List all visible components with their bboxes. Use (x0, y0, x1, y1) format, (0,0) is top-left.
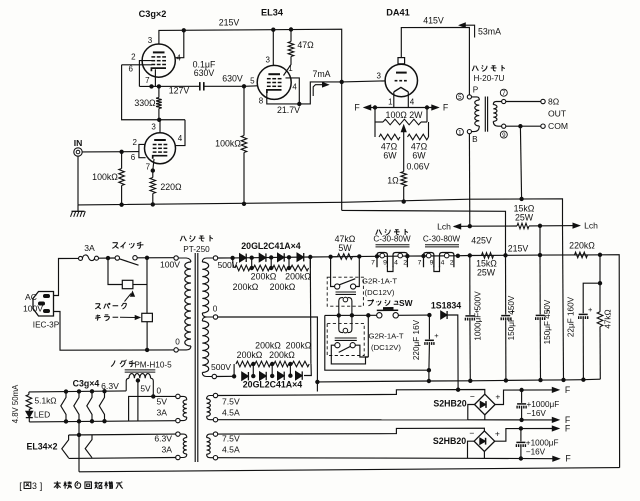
wire pushsw drop (367, 315, 369, 357)
core PM (125, 369, 156, 371)
capacitor 1000uF 500V (469, 256, 471, 315)
svg-text:G2R-1A-T: G2R-1A-T (362, 276, 397, 285)
svg-text:5W: 5W (338, 243, 352, 253)
wire AC2a stub (484, 415, 486, 420)
terminal 7.5Vb bot (213, 456, 217, 460)
arrow F right (432, 105, 439, 110)
svg-text:4.8V 50mA: 4.8V 50mA (11, 384, 20, 423)
node 22uF tap (598, 282, 601, 285)
svg-text:100kΩ: 100kΩ (215, 139, 241, 149)
node lower plate junction (158, 118, 161, 121)
heater C3g 1 (61, 392, 66, 422)
relay K1 core (336, 291, 357, 293)
svg-text:200kΩ: 200kΩ (251, 271, 277, 281)
wire V1b pin2 box (139, 144, 146, 157)
core choke1 (376, 244, 410, 246)
wire V1 pin6 drop (122, 65, 185, 120)
arrow F1 (552, 388, 559, 393)
node gnd 1ohm (402, 200, 405, 203)
node bus 1000uF (469, 379, 472, 382)
svg-text:220Ω: 220Ω (160, 182, 182, 192)
svg-text:(DC12V): (DC12V) (365, 288, 395, 297)
node d1 (250, 256, 253, 259)
node gnd 100k2 (242, 202, 245, 205)
wire AC2b vertex (468, 441, 475, 458)
wire DC+2 (495, 429, 555, 442)
node 220k out (598, 253, 601, 256)
wire pushsw line2 (398, 314, 429, 316)
node 425V rail (468, 254, 471, 257)
wire input to grid (82, 151, 139, 153)
terminal 8ohm (541, 99, 545, 103)
wire F line DA41 (367, 107, 436, 109)
node bus bleed (562, 378, 565, 381)
coil 7.5V b (207, 434, 214, 438)
diode LD3 (278, 372, 285, 380)
svg-text:9: 9 (502, 132, 506, 139)
svg-text:4.5A: 4.5A (222, 445, 240, 455)
node gnd COM (520, 197, 523, 200)
resistor 220k (575, 252, 588, 258)
arrow F4 (553, 456, 560, 461)
wire AC2a (218, 419, 468, 421)
svg-text:200kΩ: 200kΩ (255, 341, 281, 351)
svg-text:2: 2 (131, 52, 136, 61)
fuse 3A (79, 256, 83, 260)
resistor 47ohm 6W left (374, 122, 376, 137)
wire 7mA line (299, 82, 341, 104)
wire fuse-sw (99, 257, 116, 259)
node 215V rail (504, 254, 507, 257)
wire EL34 pin3 (272, 30, 274, 66)
svg-text:3: 3 (151, 122, 156, 131)
coil OPT secondary (493, 102, 501, 105)
wire relay1 bypass right (356, 256, 360, 286)
terminal sec bot (502, 124, 506, 128)
svg-text:1000μF 500V: 1000μF 500V (473, 291, 482, 341)
switch mains (115, 256, 119, 260)
svg-text:100kΩ: 100kΩ (92, 172, 118, 182)
capacitor 150uF 450V a (505, 255, 507, 314)
svg-text:4: 4 (292, 82, 297, 91)
resistor 5.1k (26, 395, 32, 410)
wire V1 pin7 (154, 69, 156, 86)
wire Lch left line (454, 225, 470, 227)
arrow Lch right (563, 225, 577, 227)
wire jack ground (77, 156, 79, 205)
svg-text:1: 1 (388, 98, 393, 107)
node bus 150b (539, 378, 542, 381)
svg-text:PM-H10-5: PM-H10-5 (134, 361, 172, 370)
svg-text:F: F (565, 454, 571, 464)
resistor 330ohm (156, 98, 162, 109)
arrow 53mA hook (463, 25, 475, 37)
wire K2 right (355, 345, 368, 357)
svg-text:F: F (443, 103, 449, 113)
terminal 6.3V bot (176, 455, 180, 459)
wire EL34 top (69, 433, 176, 436)
plug AC IEC-3P (33, 292, 54, 317)
capacitor 0.1uF coupling (199, 82, 201, 90)
svg-text:F: F (354, 103, 360, 113)
svg-text:7mA: 7mA (312, 69, 330, 79)
svg-text:22μF 160V: 22μF 160V (567, 296, 576, 337)
svg-text:630V: 630V (194, 68, 215, 78)
coil 6.3V 3A (180, 434, 187, 438)
bridge rectifier S2HB20 #2 (474, 431, 495, 452)
node ld2 (271, 374, 274, 377)
svg-text:IEC-3P: IEC-3P (33, 321, 60, 330)
label hashimoto OPT (472, 66, 478, 71)
resistor 100ohm 2W hum (374, 108, 376, 123)
node Lch 425V junction (468, 225, 471, 228)
terminal B (467, 130, 471, 134)
terminal P (467, 95, 471, 99)
node C3g plate junction (182, 29, 185, 32)
node cap1 top (520, 388, 523, 391)
terminal COM (541, 124, 545, 128)
svg-text:0: 0 (175, 338, 180, 347)
svg-text:G2R-1A-T: G2R-1A-T (368, 331, 403, 340)
label push SW (368, 300, 374, 306)
node gnd 100k (120, 203, 123, 206)
svg-text:IN: IN (74, 138, 83, 148)
wire COM (506, 125, 541, 127)
capacitor 1000uF 16V #1 (521, 390, 523, 403)
wire DA41 grid (342, 81, 386, 82)
node 220uF top (428, 313, 431, 316)
svg-text:7: 7 (371, 260, 375, 267)
svg-text:3: 3 (32, 481, 37, 491)
diode 1S1834 (441, 311, 447, 319)
svg-text:415V: 415V (423, 16, 444, 26)
svg-text:+: + (588, 305, 593, 314)
svg-text:2: 2 (403, 260, 407, 267)
node cap2 bot (519, 457, 522, 460)
heater C3g 3 (87, 391, 92, 421)
node 1S1834 tie (456, 388, 459, 391)
spark killer net (108, 258, 122, 284)
node cap2 top (519, 427, 522, 430)
svg-text:DA41: DA41 (386, 8, 410, 18)
node COM junction (519, 125, 522, 128)
jack IN (74, 148, 82, 156)
terminal 500V bot (212, 374, 216, 378)
wire heater return bus (29, 421, 176, 422)
svg-text:4.5A: 4.5A (222, 408, 240, 418)
svg-text:3: 3 (376, 72, 381, 81)
terminal 6.3V top (176, 432, 180, 436)
relay K1 contact (335, 284, 340, 289)
svg-text:7: 7 (146, 163, 151, 172)
svg-text:3A: 3A (161, 445, 172, 455)
wire lower string out (304, 364, 311, 376)
node k1 coil a (337, 314, 340, 317)
svg-text:COM: COM (548, 121, 568, 131)
core choke2 (425, 244, 459, 246)
wire relay frame (325, 315, 429, 370)
wire C3g pin4 to rail (176, 30, 184, 57)
node 330ohm top (157, 85, 160, 88)
node 100k input junction (120, 150, 123, 153)
wire 8ohm (506, 101, 541, 103)
wire hum wiper (403, 128, 405, 137)
node bus 220uF (427, 379, 430, 382)
terminal 100V (174, 256, 178, 260)
node ld3 (289, 374, 292, 377)
resistor 100k input (121, 152, 123, 169)
relay K1 coil (339, 298, 343, 316)
wire B plus drop (468, 134, 470, 226)
wire F4 line (468, 457, 556, 459)
svg-text:0.06V: 0.06V (407, 162, 430, 172)
core OPT (484, 97, 486, 132)
wire V1b pin3 (159, 120, 161, 133)
wire B+ rail (218, 255, 620, 468)
coil PM (126, 378, 129, 391)
arrow spark1 (125, 294, 132, 302)
node d4 (309, 255, 312, 258)
node 630V (242, 85, 245, 88)
svg-text:5: 5 (250, 76, 255, 85)
heater EL34 1 (62, 435, 69, 458)
wire bleeder ground (563, 226, 564, 380)
wire AC1a (218, 390, 485, 396)
svg-text:F: F (565, 424, 571, 434)
resistor 47k 5W (331, 256, 338, 258)
wire bus stub (316, 382, 318, 392)
arrow F3 (552, 426, 559, 431)
svg-text:1S1834: 1S1834 (431, 300, 461, 310)
svg-text:SW: SW (399, 298, 413, 308)
svg-text:+: + (495, 392, 500, 402)
circnum 9 (500, 131, 507, 138)
coil 5V 3A (180, 396, 187, 400)
svg-text:−: − (470, 391, 475, 401)
node EL34 plate rail (272, 28, 275, 31)
svg-text:4: 4 (178, 134, 183, 143)
node spark bottom (145, 348, 148, 351)
svg-text:425V: 425V (471, 236, 492, 246)
wire cathode down (403, 137, 405, 172)
terminal sec top (502, 99, 506, 103)
wire sw-xfmr (137, 257, 174, 259)
choke L1 (377, 253, 387, 268)
diode LD1 (242, 372, 249, 380)
svg-text:47Ω: 47Ω (297, 40, 314, 50)
wire V3 filament legs (393, 92, 395, 108)
label switch kana (112, 243, 118, 249)
svg-text:150μF 450V: 150μF 450V (507, 295, 516, 340)
wire V2 screen (286, 78, 300, 104)
wire lower string (216, 375, 234, 377)
node ld0 (232, 375, 235, 378)
svg-text:C3g×2: C3g×2 (139, 9, 167, 19)
svg-text:150μF 450V: 150μF 450V (543, 299, 552, 344)
wire relay1 bypass left (331, 257, 335, 287)
svg-text:500V: 500V (217, 260, 237, 270)
svg-text:8: 8 (259, 97, 264, 106)
svg-text:220kΩ: 220kΩ (569, 241, 595, 251)
svg-text:PT-250: PT-250 (183, 245, 210, 254)
node ld1 (252, 374, 255, 377)
resistor 200k string top (232, 258, 235, 268)
svg-text:]: ] (40, 481, 43, 491)
svg-text:4: 4 (410, 98, 415, 107)
terminal 5V top (176, 394, 180, 398)
node pushsw branch (367, 314, 370, 317)
node gnd 220 (151, 203, 154, 206)
svg-text:5V: 5V (156, 397, 167, 407)
heater EL34 2 (85, 435, 92, 458)
label hashimoto PT (180, 236, 186, 241)
resistor 15k 25W drop (482, 253, 494, 259)
wire pushsw line (325, 314, 377, 316)
arrow F left (364, 105, 371, 110)
relay K2 contact (335, 343, 340, 348)
svg-text:200kΩ: 200kΩ (237, 350, 263, 360)
svg-text:C3g×4: C3g×4 (73, 378, 100, 388)
capacitor 22uF 160V (579, 313, 588, 315)
svg-text:215V: 215V (508, 244, 529, 254)
wire PM tap 5V (137, 380, 139, 422)
terminal 7.5Va top (213, 393, 217, 397)
wire PM 0 line (129, 396, 176, 421)
svg-text:6W: 6W (383, 150, 397, 160)
node F 1 (373, 106, 376, 109)
node bus start (316, 380, 319, 383)
node 220uF bot (427, 369, 430, 372)
node V1b cathode junction (151, 169, 154, 172)
tube V1 C3g upper (142, 44, 175, 77)
svg-text:200kΩ: 200kΩ (270, 282, 296, 292)
svg-text:3A: 3A (84, 243, 95, 253)
relay K1 box (327, 277, 363, 306)
svg-text:2: 2 (450, 260, 454, 267)
svg-text:5: 5 (458, 94, 462, 101)
wire AC2b stub (483, 452, 485, 459)
svg-text:0: 0 (157, 387, 162, 396)
node d2 (270, 256, 273, 259)
svg-text:100Ω 2W: 100Ω 2W (386, 110, 424, 120)
svg-text:20GL2C41A×4: 20GL2C41A×4 (243, 379, 303, 389)
node bus 22uF (582, 378, 585, 381)
wire heater return long (79, 468, 620, 472)
svg-text:−: − (469, 428, 474, 438)
svg-text:3A: 3A (156, 408, 167, 418)
coil OPT primary (472, 97, 480, 100)
svg-text:+: + (495, 428, 500, 438)
wire 215V rail (159, 29, 342, 210)
node bus 150a (504, 379, 507, 382)
arrow Lch left (454, 224, 461, 229)
svg-text:127V: 127V (169, 85, 190, 95)
diode LD4 (296, 371, 303, 379)
svg-text:5.1kΩ: 5.1kΩ (34, 396, 56, 406)
svg-text:(DC12V): (DC12V) (371, 343, 401, 352)
node d3 (287, 256, 290, 259)
relay K2 coil (339, 315, 343, 332)
circnum 5 (456, 93, 463, 100)
heater C3g 4 (99, 391, 104, 421)
node d0 (231, 256, 234, 259)
svg-text:S2HB20: S2HB20 (433, 399, 466, 409)
label killer kana (95, 315, 101, 321)
wire heater return drop (78, 422, 80, 472)
coil 7.5V a (207, 396, 214, 400)
wire mains top (54, 258, 79, 295)
wire V1 grid pin2 (139, 61, 151, 87)
wire lower riser (309, 257, 312, 364)
resistor 47ohm screen (290, 30, 292, 42)
svg-text:8Ω: 8Ω (548, 97, 560, 107)
svg-text:3: 3 (265, 56, 270, 65)
svg-text:−16V: −16V (526, 447, 546, 456)
svg-text:500V: 500V (211, 362, 231, 372)
svg-text:200kΩ: 200kΩ (233, 282, 259, 292)
wire 415V rail (401, 28, 469, 95)
node 47k left (329, 255, 332, 258)
tube V3 DA41 (385, 64, 417, 96)
svg-text:AC: AC (25, 292, 37, 302)
wire 22uF tap (599, 255, 601, 283)
ground symbol (77, 205, 79, 211)
node cap1 bot (520, 418, 523, 421)
LED (26, 411, 33, 417)
node 47k right (358, 255, 361, 258)
resistor 1ohm (401, 172, 407, 187)
svg-text:S2HB20: S2HB20 (433, 436, 466, 446)
wire V1 cathode node 127V (139, 85, 199, 87)
svg-text:+1000μF: +1000μF (527, 400, 560, 409)
wire 6.3V bus (29, 391, 126, 392)
svg-text:Lch: Lch (584, 221, 598, 231)
terminal 0 sec (213, 315, 217, 319)
coil PT secondary (202, 258, 213, 262)
svg-text:7.5V: 7.5V (222, 397, 240, 407)
svg-text:C-30-80W: C-30-80W (373, 235, 411, 244)
diode D3 (278, 253, 285, 261)
bridge rectifier S2HB20 #1 (475, 394, 496, 415)
wire NFB drop (520, 126, 521, 199)
wire V2 cathode (267, 92, 300, 104)
resistor 100k V2 grid (243, 86, 245, 135)
relay K2 box (327, 324, 364, 356)
svg-text:LED: LED (34, 410, 50, 420)
svg-text:200kΩ: 200kΩ (285, 271, 311, 281)
svg-text:6.3V: 6.3V (154, 434, 172, 444)
wire V1b plate pin4 (176, 120, 186, 146)
choke L2 (424, 253, 434, 268)
svg-text:25W: 25W (477, 268, 496, 278)
svg-text:9: 9 (430, 260, 434, 267)
wire F2 line (468, 419, 555, 421)
node spark2 (145, 256, 148, 259)
node 425V (456, 254, 459, 257)
resistor 15k 25W bleeder (470, 225, 517, 227)
svg-text:0: 0 (213, 305, 218, 314)
hook 7mA (313, 85, 324, 96)
label spark kana (95, 304, 101, 309)
wire V1 pin6 (122, 64, 152, 66)
svg-text:1: 1 (458, 129, 462, 136)
svg-text:+1000μF: +1000μF (526, 439, 559, 448)
svg-text:200kΩ: 200kΩ (269, 350, 295, 360)
svg-text:2: 2 (132, 138, 137, 147)
wire DC+1 (495, 390, 555, 405)
node k1 coil b (350, 314, 353, 317)
svg-text:−16V: −16V (527, 409, 547, 418)
